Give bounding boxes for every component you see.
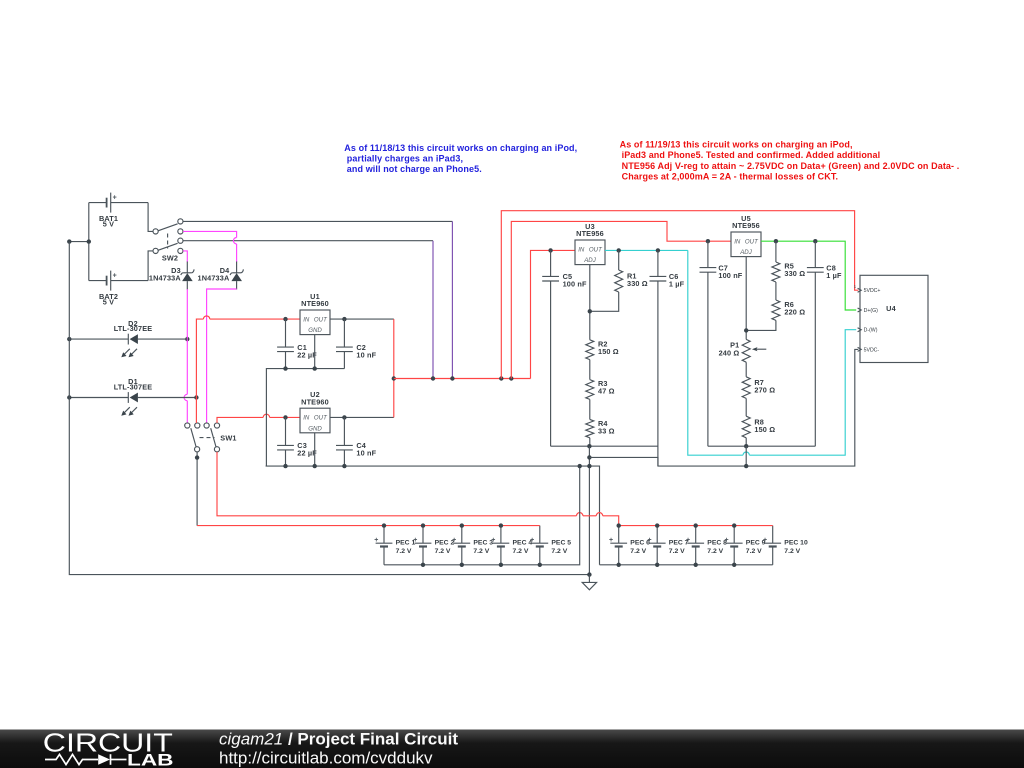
svg-text:OUT: OUT bbox=[314, 415, 328, 422]
resistor R7 270ohm bbox=[742, 362, 775, 416]
svg-text:7.2 V: 7.2 V bbox=[396, 548, 412, 555]
svg-text:As of 11/19/13 this circuit wo: As of 11/19/13 this circuit works on cha… bbox=[620, 139, 853, 149]
junction C7 top bbox=[706, 239, 710, 243]
junction U2 gnd rail bbox=[283, 464, 346, 468]
svg-text:OUT: OUT bbox=[745, 238, 759, 245]
svg-text:U4: U4 bbox=[886, 304, 896, 313]
junction D2 left rail bbox=[67, 337, 71, 341]
wire SW1 throw2 red up to U1 IN bbox=[196, 316, 300, 423]
svg-text:and will not charge an Phone5.: and will not charge an Phone5. bbox=[347, 164, 482, 174]
wire battery left branch bbox=[88, 203, 90, 281]
svg-text:+: + bbox=[530, 537, 534, 544]
svg-text:+: + bbox=[374, 537, 378, 544]
svg-text:150 Ω: 150 Ω bbox=[598, 347, 619, 356]
switch SW1 pole right common terminal bbox=[214, 447, 219, 452]
junction R8 drop on return rail bbox=[744, 464, 748, 468]
svg-text:7.2 V: 7.2 V bbox=[473, 548, 489, 555]
switch SW2 pole b blade bbox=[158, 243, 178, 250]
svg-text:ADJ: ADJ bbox=[739, 249, 752, 256]
junction D2 on magenta bbox=[185, 337, 189, 341]
junction red riser B bbox=[509, 376, 513, 380]
resistor R1 330ohm bbox=[590, 250, 648, 311]
junction rail B bbox=[587, 455, 591, 459]
svg-text:330 Ω: 330 Ω bbox=[627, 279, 648, 288]
wire red riser to net B (U5 IN) bbox=[511, 221, 731, 378]
wire U5 bottom rail D bbox=[708, 445, 815, 447]
svg-text:+: + bbox=[113, 273, 117, 280]
resistor R4 33ohm bbox=[586, 419, 615, 446]
svg-text:ADJ: ADJ bbox=[583, 257, 596, 264]
switch SW1 pole right blade bbox=[211, 428, 216, 447]
switch SW2 pole b common terminal bbox=[153, 248, 158, 253]
svg-text:7.2 V: 7.2 V bbox=[630, 548, 646, 555]
junction U5 ADJ / R6 bbox=[744, 328, 748, 332]
capacitor C6 1uF bbox=[650, 250, 685, 466]
svg-text:As of 11/18/13 this circuit wo: As of 11/18/13 this circuit works on cha… bbox=[344, 143, 577, 153]
svg-text:5 V: 5 V bbox=[103, 220, 114, 229]
svg-text:270 Ω: 270 Ω bbox=[754, 385, 775, 394]
junction D1 to U1 feed bbox=[194, 395, 198, 399]
wire red riser to net A (5VDC+) bbox=[501, 211, 858, 379]
junction C2 top bbox=[342, 317, 346, 321]
switch SW1 gang dashed link bbox=[200, 437, 215, 439]
wire R8 drop to return rail bbox=[745, 446, 747, 466]
svg-text:1: 1 bbox=[854, 284, 857, 289]
svg-text:150 Ω: 150 Ω bbox=[754, 425, 775, 434]
svg-text:5 V: 5 V bbox=[103, 298, 114, 307]
note: red annotation 11/19/13 bbox=[620, 139, 960, 181]
svg-text:47 Ω: 47 Ω bbox=[598, 387, 615, 396]
note: blue annotation 11/18/13 bbox=[344, 143, 577, 174]
junction PEC1-4 tops bbox=[382, 523, 503, 527]
junction C6 top bbox=[656, 248, 660, 252]
op-amp U5 voltage regulator NTE956 bbox=[731, 214, 761, 257]
svg-text:240 Ω: 240 Ω bbox=[719, 349, 740, 358]
svg-text:LAB: LAB bbox=[127, 752, 174, 768]
wire purple drop left bbox=[432, 241, 434, 379]
wire BAT2 to SW2b common bbox=[148, 251, 153, 281]
wire cyan to D-(W) bbox=[688, 250, 856, 455]
junction PEC6-10 bottoms bbox=[655, 563, 736, 567]
capacitor C1 22uF bbox=[277, 319, 317, 369]
svg-text:IN: IN bbox=[578, 246, 585, 253]
connector U4 box bbox=[860, 275, 928, 362]
svg-text:D+(G): D+(G) bbox=[864, 308, 879, 314]
svg-text:5VDC+: 5VDC+ bbox=[864, 288, 881, 294]
resistor R6 220ohm bbox=[746, 300, 805, 330]
svg-text:LTL-307EE: LTL-307EE bbox=[114, 383, 153, 392]
svg-text:100 nF: 100 nF bbox=[718, 271, 742, 280]
junction purple2 on bus bbox=[450, 376, 454, 380]
junction C1 top bbox=[283, 317, 287, 321]
ground symbol bbox=[582, 575, 596, 590]
potentiometer P1 240ohm bbox=[719, 339, 767, 362]
svg-text:+: + bbox=[725, 537, 729, 544]
switch SW2 gang dashed link bbox=[167, 234, 169, 249]
wire D3 anode down to SW1 throw1 bbox=[184, 289, 187, 423]
svg-text:GND: GND bbox=[308, 327, 322, 334]
svg-text:7.2 V: 7.2 V bbox=[746, 548, 762, 555]
wire SW1 left common to PEC1-5 rail bbox=[197, 452, 540, 526]
switch SW2 pole a blade bbox=[158, 224, 178, 231]
wire D4 anode down to SW1 throw3 bbox=[207, 289, 237, 423]
wire ground drop from rail A bbox=[588, 446, 590, 574]
wire BAT1 to SW2a common bbox=[148, 203, 153, 232]
wire U3 OUT cyan bbox=[605, 249, 688, 251]
wire U3 bottom rail A bbox=[551, 445, 658, 447]
svg-text:NTE960: NTE960 bbox=[301, 299, 329, 308]
capacitor C4 10nF bbox=[336, 417, 377, 466]
svg-text:LTL-307EE: LTL-307EE bbox=[114, 324, 153, 333]
svg-text:PEC 5: PEC 5 bbox=[551, 540, 571, 547]
svg-text:10 nF: 10 nF bbox=[356, 350, 376, 359]
wire magenta through D2 junction bbox=[186, 336, 188, 342]
resistor R8 150ohm bbox=[742, 416, 775, 446]
wire U2 ground rail C bbox=[266, 466, 600, 565]
wire rail B to 5VDC- return bbox=[589, 349, 858, 466]
battery PEC 5 7.2V bbox=[530, 526, 571, 565]
label SW2 bbox=[162, 253, 178, 262]
junction C4 top bbox=[342, 415, 346, 419]
svg-text:+: + bbox=[686, 537, 690, 544]
wire SW2 throw4 magenta to D3 bbox=[183, 251, 187, 262]
wire SW2 throw1 to purple drop (net to +5V bus) bbox=[183, 220, 452, 222]
svg-text:+: + bbox=[491, 537, 495, 544]
svg-text:33 Ω: 33 Ω bbox=[598, 426, 615, 435]
svg-text:330 Ω: 330 Ω bbox=[784, 269, 805, 278]
zener diode D4 1N4733A bbox=[198, 262, 244, 290]
svg-text:100 nF: 100 nF bbox=[563, 280, 587, 289]
wire SW2 throw2 magenta to D4 bbox=[183, 231, 237, 262]
battery PEC 2 7.2V bbox=[413, 526, 454, 565]
junction PEC6 bottom bbox=[617, 563, 621, 567]
junction red riser bus bbox=[392, 376, 396, 380]
capacitor C3 22uF bbox=[277, 417, 317, 466]
junction D1 left rail bbox=[67, 395, 71, 399]
junction red riser A bbox=[499, 376, 503, 380]
svg-text:OUT: OUT bbox=[589, 246, 603, 253]
zener diode D3 1N4733A bbox=[149, 262, 194, 290]
wire U5 ADJ bbox=[745, 257, 747, 340]
battery PEC 6 7.2V bbox=[609, 526, 650, 565]
wire red riser U1/U2 OUT bbox=[393, 319, 395, 417]
svg-text:GND: GND bbox=[308, 425, 322, 432]
battery PEC 9 7.2V bbox=[725, 526, 766, 565]
svg-text:7.2 V: 7.2 V bbox=[435, 548, 451, 555]
svg-text:http://circuitlab.com/cvddukv: http://circuitlab.com/cvddukv bbox=[219, 749, 433, 768]
junction R5 top bbox=[774, 239, 778, 243]
junction U3 ADJ / R1 bbox=[588, 309, 592, 313]
wire PEC1-5 bottom rail bbox=[384, 466, 580, 565]
svg-text:220 Ω: 220 Ω bbox=[784, 307, 805, 316]
resistor R5 330ohm bbox=[772, 241, 805, 300]
battery PEC 10 7.2V bbox=[763, 526, 808, 565]
junction C8 top bbox=[813, 239, 817, 243]
battery PEC 8 7.2V bbox=[686, 526, 727, 565]
svg-text:1 µF: 1 µF bbox=[669, 280, 685, 289]
svg-text:IN: IN bbox=[303, 316, 310, 323]
switch SW2 throw terminals bbox=[178, 219, 183, 254]
wire SW1 throw4 red up to U2 IN bbox=[217, 414, 300, 423]
op-amp U1 voltage regulator NTE960 bbox=[300, 292, 330, 335]
junction SW1 left common stub bbox=[195, 455, 199, 459]
connector U4 pins 5VDC+ D+(G) D-(W) 5VDC- bbox=[854, 284, 881, 354]
svg-text:IN: IN bbox=[303, 415, 310, 422]
svg-text:NTE960: NTE960 bbox=[301, 397, 329, 406]
svg-text:NTE956: NTE956 bbox=[732, 221, 760, 230]
resistor R3 47ohm bbox=[586, 379, 615, 419]
junction battery negative bbox=[67, 239, 91, 243]
svg-text:PEC 10: PEC 10 bbox=[784, 540, 808, 547]
junction U1 gnd rail bbox=[283, 366, 317, 370]
battery BAT2 5V bbox=[89, 271, 148, 307]
junction purple1 on bus bbox=[431, 376, 435, 380]
svg-text:cigam21 / Project Final Circui: cigam21 / Project Final Circuit bbox=[219, 730, 458, 749]
svg-text:+: + bbox=[609, 537, 613, 544]
svg-text:7.2 V: 7.2 V bbox=[513, 548, 529, 555]
battery PEC 3 7.2V bbox=[452, 526, 493, 565]
svg-text:7.2 V: 7.2 V bbox=[707, 548, 723, 555]
switch SW1 pole left blade bbox=[191, 428, 196, 447]
junction C3 top bbox=[283, 415, 287, 419]
op-amp U3 voltage regulator NTE956 bbox=[575, 222, 605, 265]
svg-text:IN: IN bbox=[734, 238, 741, 245]
wire U1 ground rail bbox=[266, 369, 344, 467]
svg-text:Charges at 2,000mA = 2A - ther: Charges at 2,000mA = 2A - thermal losses… bbox=[622, 172, 838, 182]
wire U3 ADJ bbox=[589, 265, 591, 340]
LED D1 LTL-307EE bbox=[69, 377, 196, 416]
svg-text:partially charges an iPad3,: partially charges an iPad3, bbox=[347, 153, 463, 163]
svg-text:+: + bbox=[113, 195, 117, 202]
switch SW1 throw terminals bbox=[185, 423, 220, 428]
battery BAT1 5V bbox=[89, 193, 148, 229]
capacitor C8 1uF bbox=[807, 241, 842, 446]
junction R4 bottom bbox=[587, 444, 591, 448]
capacitor C7 100nF bbox=[700, 241, 743, 446]
capacitor C5 100nF bbox=[542, 250, 587, 446]
svg-text:10 nF: 10 nF bbox=[356, 449, 376, 458]
junction PEC rail drop on rail C bbox=[578, 464, 582, 468]
svg-text:+: + bbox=[413, 537, 417, 544]
svg-text:1N4733A: 1N4733A bbox=[149, 274, 181, 283]
capacitor C2 10nF bbox=[336, 319, 377, 369]
wire SW1 right common red to PEC6-10 rail bbox=[217, 452, 773, 526]
wire U2 OUT to red riser bbox=[330, 416, 394, 418]
switch SW1 pole left common terminal bbox=[195, 447, 200, 452]
junction PEC6-9 tops bbox=[617, 523, 737, 527]
svg-text:1 µF: 1 µF bbox=[826, 271, 842, 280]
switch SW2 pole a common terminal bbox=[153, 229, 158, 234]
svg-text:SW2: SW2 bbox=[162, 253, 178, 262]
battery PEC 1 7.2V bbox=[374, 526, 415, 565]
svg-text:7.2 V: 7.2 V bbox=[669, 548, 685, 555]
svg-text:OUT: OUT bbox=[314, 316, 328, 323]
footer CircuitLab banner bbox=[0, 728, 1024, 768]
op-amp U2 voltage regulator NTE960 bbox=[300, 390, 330, 433]
resistor R2 150ohm bbox=[586, 339, 619, 379]
junction R8 bottom bbox=[744, 444, 748, 448]
wire left ground rail bbox=[69, 242, 589, 575]
battery PEC 4 7.2V bbox=[491, 526, 532, 565]
svg-text:7.2 V: 7.2 V bbox=[784, 548, 800, 555]
junction ground rail bbox=[587, 572, 591, 576]
wire U1 GND bbox=[314, 335, 316, 369]
svg-text:D-(W): D-(W) bbox=[864, 328, 878, 334]
wire U5 OUT green bbox=[761, 241, 856, 310]
junction R1 top bbox=[617, 248, 621, 252]
junction PEC1-5 bottoms bbox=[421, 563, 542, 567]
junction C5 top bbox=[548, 248, 552, 252]
LED D2 LTL-307EE bbox=[69, 319, 187, 358]
battery PEC 7 7.2V bbox=[648, 526, 689, 565]
svg-text:+: + bbox=[763, 537, 767, 544]
svg-text:7.2 V: 7.2 V bbox=[551, 548, 567, 555]
svg-text:NTE956 Adj V-reg to attain ~ 2: NTE956 Adj V-reg to attain ~ 2.75VDC on … bbox=[622, 161, 960, 171]
wire U1 OUT to red riser bbox=[330, 318, 394, 320]
svg-text:SW1: SW1 bbox=[220, 434, 236, 443]
svg-text:+: + bbox=[452, 537, 456, 544]
svg-text:+: + bbox=[648, 537, 652, 544]
svg-text:1N4733A: 1N4733A bbox=[198, 274, 230, 283]
junction rail C cross bbox=[587, 464, 591, 468]
svg-text:NTE956: NTE956 bbox=[576, 229, 604, 238]
wire battery negative tap to left rail bbox=[69, 241, 89, 243]
wire bus up to U3 IN bbox=[531, 250, 576, 378]
wire +5V red bus bbox=[394, 378, 531, 380]
svg-text:5VDC-: 5VDC- bbox=[864, 347, 880, 353]
wire SW2 throw3 to purple drop bbox=[183, 240, 433, 242]
wire U2 GND bbox=[314, 433, 316, 466]
wire purple drop right bbox=[451, 221, 453, 378]
label SW1 bbox=[220, 434, 236, 443]
svg-text:iPad3 and Phone5. Tested and c: iPad3 and Phone5. Tested and confirmed. … bbox=[622, 150, 881, 160]
wire PEC6-10 bottom rail bbox=[600, 564, 773, 566]
